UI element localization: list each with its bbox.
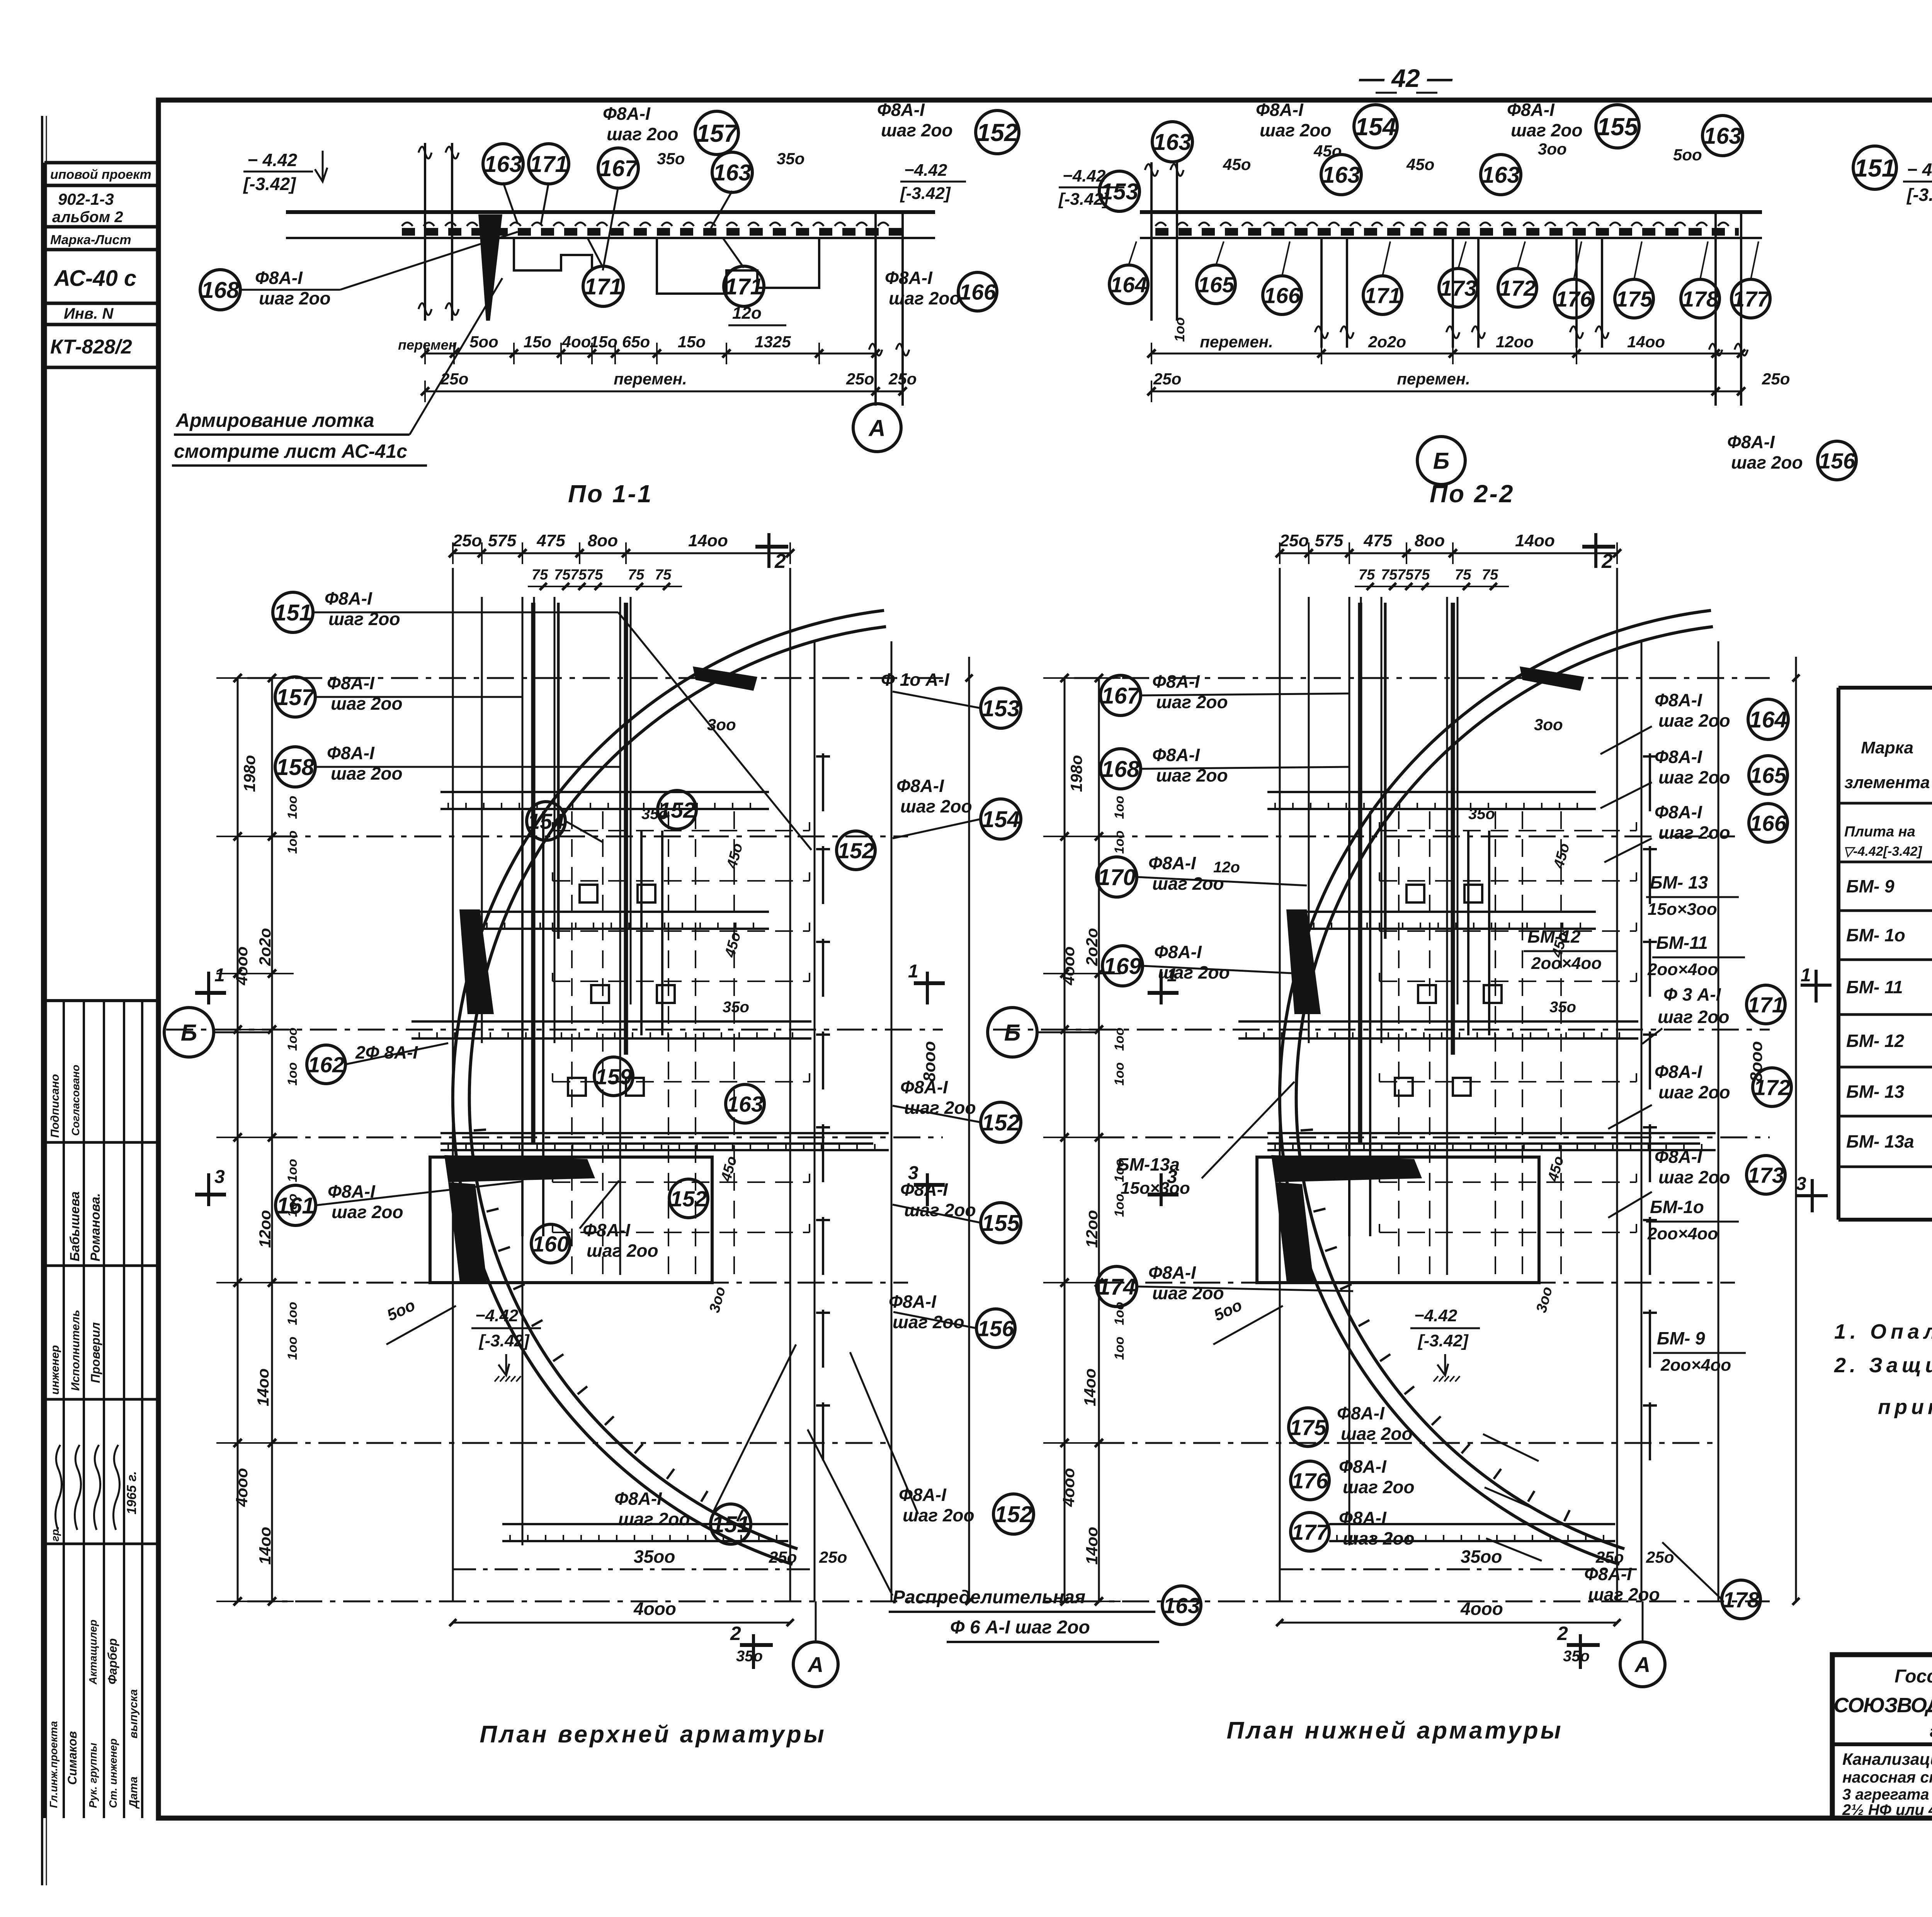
svg-text:171: 171 [584, 274, 622, 299]
svg-text:175: 175 [1289, 1416, 1327, 1440]
svg-text:65о: 65о [622, 333, 650, 351]
svg-text:шаг 2оо: шаг 2оо [1341, 1424, 1413, 1444]
svg-text:Б: Б [1433, 448, 1449, 474]
svg-text:Ф 3 А-I: Ф 3 А-I [1663, 984, 1721, 1004]
svg-text:154: 154 [527, 809, 564, 834]
svg-text:2. Защитный слой бе: 2. Защитный слой бетона для арматуры в п… [1834, 1354, 1932, 1377]
svg-text:172: 172 [1499, 276, 1536, 301]
svg-text:3оо: 3оо [1538, 140, 1567, 158]
svg-text:15о×3оо: 15о×3оо [1648, 900, 1717, 919]
svg-text:перемен.: перемен. [614, 370, 687, 388]
svg-text:шаг 2оо: шаг 2оо [1260, 120, 1332, 140]
svg-text:1оо: 1оо [285, 1062, 300, 1086]
svg-text:177: 177 [1732, 287, 1770, 312]
svg-text:Ф8А-I: Ф8А-I [900, 1179, 948, 1200]
svg-text:Ф8А-I: Ф8А-I [1655, 1147, 1702, 1167]
svg-text:Ф8А-I: Ф8А-I [1148, 1263, 1196, 1283]
svg-text:178: 178 [1682, 287, 1718, 312]
svg-text:СОЮЗВОДОКАНАЛПРОЕКТ: СОЮЗВОДОКАНАЛПРОЕКТ [1833, 1694, 1932, 1717]
svg-text:Гл.инж.проекта: Гл.инж.проекта [48, 1721, 60, 1808]
svg-text:75: 75 [655, 567, 672, 583]
svg-text:5оо: 5оо [469, 333, 498, 351]
svg-text:План верхней арматуры: План верхней арматуры [480, 1721, 826, 1748]
svg-text:1965 г.: 1965 г. [124, 1471, 139, 1514]
svg-text:1оо: 1оо [285, 796, 300, 819]
svg-text:1оо: 1оо [285, 1159, 300, 1182]
svg-text:75: 75 [532, 567, 548, 583]
svg-text:1: 1 [908, 961, 918, 982]
svg-text:45о: 45о [1223, 155, 1251, 173]
svg-text:Ф 1о А-I: Ф 1о А-I [881, 670, 950, 690]
svg-text:шаг 2оо: шаг 2оо [1658, 1082, 1730, 1102]
svg-text:35о: 35о [736, 1648, 763, 1665]
svg-text:альбом 2: альбом 2 [52, 209, 123, 226]
svg-text:шаг 2оо: шаг 2оо [587, 1241, 658, 1261]
svg-text:Ф8А-I: Ф8А-I [327, 673, 375, 693]
svg-text:178: 178 [1723, 1588, 1759, 1613]
svg-text:75: 75 [1455, 567, 1471, 583]
svg-text:шаг 2оо: шаг 2оо [1658, 823, 1730, 843]
svg-text:475: 475 [1363, 531, 1392, 550]
svg-text:БМ-1о: БМ-1о [1650, 1197, 1704, 1217]
svg-text:161: 161 [277, 1193, 315, 1219]
svg-text:575: 575 [1315, 531, 1344, 550]
svg-text:3оо: 3оо [707, 715, 736, 734]
svg-text:Госстрой СССР: Госстрой СССР [1895, 1666, 1932, 1687]
svg-text:8оо: 8оо [1415, 531, 1445, 550]
svg-text:166: 166 [959, 280, 996, 305]
svg-text:Ф8А-I: Ф8А-I [255, 268, 303, 288]
svg-text:3оо: 3оо [1534, 715, 1563, 734]
svg-text:шаг 2оо: шаг 2оо [1511, 120, 1583, 140]
svg-text:171: 171 [530, 151, 568, 177]
svg-text:14оо: 14оо [1081, 1368, 1099, 1406]
svg-text:163: 163 [1482, 162, 1520, 188]
svg-text:Исполнитель: Исполнитель [69, 1310, 82, 1391]
svg-text:1: 1 [1801, 965, 1811, 986]
svg-text:25о: 25о [819, 1548, 847, 1566]
svg-text:Плита на: Плита на [1844, 824, 1915, 840]
svg-text:шаг 2оо: шаг 2оо [607, 124, 679, 144]
svg-text:2о2о: 2о2о [1083, 928, 1101, 966]
svg-text:Ф 6 А-I шаг 2оо: Ф 6 А-I шаг 2оо [950, 1617, 1090, 1638]
svg-text:25о: 25о [452, 531, 482, 550]
svg-text:35о: 35о [657, 150, 685, 168]
svg-text:176: 176 [1555, 287, 1592, 312]
svg-text:Ф8А-I: Ф8А-I [1256, 100, 1304, 120]
svg-text:25о: 25о [1595, 1548, 1624, 1566]
svg-text:152: 152 [977, 119, 1018, 146]
svg-text:− 4.42: − 4.42 [247, 150, 298, 170]
svg-text:163: 163 [1163, 1594, 1200, 1618]
svg-text:169: 169 [1104, 953, 1142, 979]
svg-text:45о: 45о [1313, 142, 1342, 160]
svg-text:шаг 2оо: шаг 2оо [1152, 1283, 1224, 1303]
svg-text:176: 176 [1291, 1469, 1328, 1494]
svg-text:171: 171 [1364, 284, 1401, 308]
svg-text:35о: 35о [1563, 1648, 1590, 1665]
svg-text:Проверил: Проверил [88, 1322, 102, 1383]
svg-text:2: 2 [1601, 550, 1613, 573]
svg-text:159: 159 [595, 1065, 632, 1089]
svg-text:14оо: 14оо [1627, 333, 1665, 351]
svg-text:15о×3оо: 15о×3оо [1121, 1179, 1190, 1198]
svg-text:165: 165 [1197, 273, 1235, 297]
svg-text:152: 152 [670, 1187, 707, 1212]
svg-text:157: 157 [276, 685, 316, 710]
svg-text:1оо: 1оо [1172, 317, 1187, 342]
svg-text:155: 155 [1597, 113, 1639, 141]
svg-text:шаг 2оо: шаг 2оо [618, 1509, 690, 1529]
svg-text:смотрите лист АС-41с: смотрите лист АС-41с [174, 440, 407, 462]
svg-text:▽-4.42[-3.42]: ▽-4.42[-3.42] [1843, 844, 1922, 859]
svg-text:Марка: Марка [1861, 738, 1913, 757]
svg-text:163: 163 [1153, 129, 1192, 155]
svg-text:3: 3 [214, 1167, 225, 1187]
svg-text:198о: 198о [1067, 755, 1085, 792]
svg-text:Актащилер: Актащилер [87, 1620, 99, 1685]
svg-text:шаг 2оо: шаг 2оо [1343, 1528, 1415, 1548]
svg-text:157: 157 [696, 119, 739, 147]
svg-text:12оо: 12оо [1496, 333, 1534, 351]
svg-text:160: 160 [532, 1232, 569, 1257]
svg-text:злемента: злемента [1845, 773, 1930, 792]
svg-text:12оо: 12оо [1083, 1210, 1101, 1248]
svg-text:14оо: 14оо [688, 531, 728, 550]
svg-text:Ф8А-I: Ф8А-I [614, 1489, 662, 1509]
svg-text:153: 153 [982, 696, 1020, 721]
svg-text:2о2о: 2о2о [1368, 333, 1406, 351]
svg-text:Ф8А-I: Ф8А-I [1152, 671, 1200, 692]
svg-text:Распределительная: Распределительная [893, 1587, 1085, 1608]
svg-text:Ф8А-I: Ф8А-I [1655, 747, 1702, 767]
svg-text:1оо: 1оо [285, 1302, 300, 1325]
svg-text:Ф8А-I: Ф8А-I [1655, 690, 1702, 710]
svg-text:177: 177 [1291, 1520, 1329, 1545]
svg-text:насосная станция на: насосная станция на [1842, 1768, 1932, 1786]
svg-text:БМ- 9: БМ- 9 [1846, 876, 1895, 896]
svg-text:Ф8А-I: Ф8А-I [889, 1292, 937, 1312]
svg-text:БМ- 13: БМ- 13 [1650, 872, 1708, 892]
svg-text:[-3.42]: [-3.42] [1906, 185, 1932, 205]
svg-text:шаг 2оо: шаг 2оо [889, 288, 961, 308]
svg-text:КТ-828/2: КТ-828/2 [50, 336, 132, 358]
svg-text:Ф8А-I: Ф8А-I [1655, 1062, 1702, 1082]
svg-text:154: 154 [1355, 113, 1396, 141]
svg-text:Рук. группы: Рук. группы [87, 1743, 99, 1808]
svg-text:156: 156 [977, 1317, 1014, 1341]
svg-text:14оо: 14оо [1083, 1527, 1101, 1565]
svg-text:шаг 2оо: шаг 2оо [881, 120, 953, 140]
svg-text:25о: 25о [846, 370, 874, 388]
svg-text:Бабышева: Бабышева [68, 1191, 82, 1261]
svg-text:2оо×4оо: 2оо×4оо [1660, 1356, 1731, 1375]
svg-text:Ф8А-I: Ф8А-I [900, 1077, 948, 1097]
svg-text:8ооо: 8ооо [920, 1041, 939, 1082]
svg-text:163: 163 [713, 160, 752, 185]
svg-text:Ф8А-I: Ф8А-I [1339, 1456, 1387, 1477]
svg-text:шаг 2оо: шаг 2оо [893, 1312, 964, 1332]
svg-text:шаг 2оо: шаг 2оо [1588, 1584, 1660, 1604]
svg-text:172: 172 [1753, 1076, 1790, 1100]
svg-text:4ооо: 4ооо [633, 1599, 676, 1619]
svg-text:14оо: 14оо [254, 1368, 272, 1406]
svg-text:163: 163 [1322, 162, 1361, 188]
svg-text:−4.42: −4.42 [1063, 167, 1106, 185]
svg-text:164: 164 [1749, 707, 1787, 732]
svg-text:Инв. N: Инв. N [64, 305, 114, 322]
svg-text:154: 154 [982, 807, 1020, 832]
svg-text:2: 2 [774, 550, 786, 573]
svg-text:4ооо: 4ооо [233, 947, 251, 986]
svg-text:25о: 25о [1153, 370, 1181, 388]
svg-text:шаг 2оо: шаг 2оо [1343, 1477, 1415, 1497]
svg-text:БМ- 11: БМ- 11 [1846, 977, 1903, 997]
svg-text:4ооо: 4ооо [233, 1468, 251, 1507]
svg-text:шаг 2оо: шаг 2оо [1658, 1167, 1730, 1187]
svg-text:151: 151 [274, 600, 312, 625]
svg-text:35о: 35о [723, 999, 749, 1016]
svg-text:152: 152 [995, 1502, 1033, 1527]
svg-text:гр.: гр. [49, 1526, 61, 1541]
svg-text:2½ НФ или 4НФ.: 2½ НФ или 4НФ. [1842, 1801, 1932, 1818]
svg-text:14оо: 14оо [256, 1527, 274, 1565]
svg-text:А: А [868, 415, 885, 441]
svg-text:2оо×4оо: 2оо×4оо [1647, 960, 1718, 979]
svg-text:14оо: 14оо [1515, 531, 1555, 550]
svg-text:173: 173 [1440, 276, 1476, 301]
svg-text:156: 156 [1818, 449, 1855, 474]
svg-text:шаг 2оо: шаг 2оо [1658, 710, 1730, 731]
svg-text:1оо: 1оо [1112, 1062, 1127, 1086]
svg-text:75: 75 [1413, 567, 1430, 583]
svg-text:Симаков: Симаков [65, 1731, 79, 1785]
svg-text:План нижней арматуры: План нижней арматуры [1226, 1717, 1563, 1744]
svg-text:25о: 25о [1279, 531, 1309, 550]
svg-text:75: 75 [1381, 567, 1398, 583]
svg-text:Ст. инженер: Ст. инженер [107, 1739, 119, 1808]
svg-text:перемен.: перемен. [1200, 333, 1273, 351]
svg-text:1оо: 1оо [1112, 1337, 1127, 1360]
svg-text:35оо: 35оо [634, 1547, 675, 1567]
svg-text:35о: 35о [1468, 806, 1495, 823]
svg-text:шаг 2оо: шаг 2оо [903, 1505, 975, 1525]
svg-text:Ф8А-I: Ф8А-I [1148, 853, 1196, 873]
svg-text:168: 168 [201, 277, 240, 303]
svg-text:— 42 —: — 42 — [1359, 64, 1453, 92]
svg-text:2: 2 [730, 1623, 741, 1644]
svg-text:шаг 2оо: шаг 2оо [1658, 767, 1730, 787]
svg-text:1оо: 1оо [285, 1337, 300, 1360]
svg-text:шаг 2оо: шаг 2оо [1658, 1007, 1730, 1027]
svg-text:475: 475 [536, 531, 565, 550]
svg-text:Ф8А-I: Ф8А-I [1584, 1564, 1632, 1584]
svg-text:БМ-12: БМ-12 [1527, 926, 1581, 947]
svg-text:12о: 12о [732, 304, 762, 323]
svg-text:шаг 2оо: шаг 2оо [1152, 874, 1224, 894]
svg-text:[-3.42]: [-3.42] [243, 174, 296, 194]
svg-text:158: 158 [276, 755, 315, 780]
svg-text:2: 2 [1557, 1623, 1568, 1644]
svg-text:−4.42: −4.42 [904, 161, 947, 180]
svg-text:БМ-11: БМ-11 [1656, 933, 1708, 953]
svg-text:171: 171 [1747, 993, 1784, 1018]
svg-text:166: 166 [1264, 284, 1300, 308]
svg-text:167: 167 [599, 156, 639, 181]
svg-text:164: 164 [1110, 273, 1147, 297]
svg-text:Романова.: Романова. [88, 1193, 103, 1261]
svg-text:15о: 15о [678, 333, 706, 351]
svg-text:шаг 2оо: шаг 2оо [900, 796, 972, 816]
svg-text:2Ф 8А-I: 2Ф 8А-I [355, 1042, 418, 1062]
svg-text:Ф8А-I: Ф8А-I [1337, 1403, 1385, 1423]
svg-text:152: 152 [982, 1110, 1020, 1135]
svg-text:Б: Б [1004, 1020, 1020, 1046]
svg-text:4оо: 4оо [562, 333, 591, 351]
svg-text:Ф8А-I: Ф8А-I [1154, 942, 1202, 962]
svg-text:шаг 2оо: шаг 2оо [259, 288, 331, 308]
svg-text:БМ- 13: БМ- 13 [1846, 1082, 1905, 1102]
svg-text:1оо: 1оо [1112, 1028, 1127, 1051]
svg-text:БМ-13а: БМ-13а [1117, 1154, 1180, 1174]
svg-text:Ф8А-I: Ф8А-I [885, 268, 933, 288]
svg-text:АС-40 с: АС-40 с [53, 266, 136, 291]
svg-text:−4.42: −4.42 [475, 1306, 519, 1325]
svg-text:75: 75 [1397, 567, 1414, 583]
svg-text:БМ- 1о: БМ- 1о [1846, 925, 1905, 945]
svg-text:163: 163 [484, 151, 522, 177]
svg-text:[-3.42]: [-3.42] [478, 1331, 530, 1350]
svg-text:12оо: 12оо [256, 1210, 274, 1248]
svg-text:Ф8А-I: Ф8А-I [1152, 745, 1200, 765]
svg-text:171: 171 [725, 274, 763, 299]
svg-text:4ооо: 4ооо [1060, 947, 1078, 986]
svg-text:35о: 35о [777, 150, 804, 168]
svg-text:БМ- 12: БМ- 12 [1846, 1031, 1905, 1051]
svg-text:А: А [1634, 1652, 1650, 1677]
svg-text:152: 152 [837, 839, 874, 863]
svg-text:168: 168 [1102, 756, 1140, 782]
svg-text:перемен.: перемен. [398, 337, 461, 353]
svg-text:4ооо: 4ооо [1460, 1599, 1503, 1619]
svg-text:БМ- 9: БМ- 9 [1657, 1328, 1705, 1348]
svg-text:Ф8А-I: Ф8А-I [1339, 1508, 1387, 1528]
svg-text:1оо: 1оо [285, 831, 300, 854]
svg-text:Ф8А-I: Ф8А-I [899, 1485, 947, 1505]
svg-text:Б: Б [181, 1020, 197, 1046]
svg-text:163: 163 [726, 1092, 763, 1117]
svg-text:г. Москва: г. Москва [1930, 1722, 1932, 1741]
svg-text:−4.42: −4.42 [1414, 1306, 1458, 1325]
svg-text:25о: 25о [1762, 370, 1790, 388]
svg-text:2оо×4оо: 2оо×4оо [1531, 954, 1602, 973]
svg-text:175: 175 [1616, 287, 1653, 312]
svg-text:Ф8А-I: Ф8А-I [877, 100, 925, 120]
svg-text:Согласовано: Согласовано [70, 1065, 82, 1136]
svg-text:[-3.42]: [-3.42] [1058, 190, 1109, 209]
svg-text:Ф8А-I: Ф8А-I [583, 1220, 631, 1240]
svg-text:перемен.: перемен. [1397, 370, 1470, 388]
svg-text:25о: 25о [769, 1548, 797, 1566]
svg-text:75: 75 [1482, 567, 1498, 583]
svg-text:Подписано: Подписано [49, 1074, 61, 1138]
svg-text:15о: 15о [524, 333, 551, 351]
svg-text:8оо: 8оо [588, 531, 618, 550]
svg-text:163: 163 [1704, 123, 1742, 149]
svg-text:75: 75 [1359, 567, 1375, 583]
svg-text:35о: 35о [1549, 999, 1576, 1016]
svg-text:1: 1 [214, 965, 225, 986]
svg-text:166: 166 [1750, 811, 1786, 836]
svg-text:Ф8А-I: Ф8А-I [1507, 100, 1555, 120]
svg-text:шаг 2оо: шаг 2оо [332, 1202, 403, 1222]
svg-text:902-1-3: 902-1-3 [58, 190, 114, 208]
svg-text:3 агрегата с насосами: 3 агрегата с насосами [1842, 1786, 1932, 1803]
svg-text:− 4.42: − 4.42 [1907, 160, 1932, 180]
svg-text:БМ- 13а: БМ- 13а [1846, 1132, 1914, 1152]
svg-text:1оо: 1оо [285, 1028, 300, 1051]
svg-text:выпуска: выпуска [127, 1689, 140, 1739]
svg-text:Ф8А-I: Ф8А-I [1655, 802, 1702, 822]
svg-text:А: А [807, 1652, 823, 1677]
svg-text:Фарбер: Фарбер [105, 1638, 119, 1684]
svg-text:Ф8А-I: Ф8А-I [1727, 432, 1775, 452]
svg-text:165: 165 [1750, 763, 1787, 788]
svg-text:2о2о: 2о2о [256, 928, 274, 966]
svg-text:170: 170 [1098, 865, 1136, 890]
svg-text:Ф8А-I: Ф8А-I [327, 743, 375, 763]
svg-text:75: 75 [628, 567, 645, 583]
svg-text:151: 151 [712, 1512, 750, 1537]
svg-text:1. Опалубочные чертежи: 1. Опалубочные чертежи смотрите лист АС-… [1834, 1320, 1932, 1343]
svg-text:25о: 25о [440, 370, 468, 388]
svg-text:2оо×4оо: 2оо×4оо [1647, 1224, 1718, 1243]
svg-text:Армирование лотка: Армирование лотка [175, 410, 374, 431]
svg-text:75: 75 [587, 567, 603, 583]
svg-text:Канализационная: Канализационная [1842, 1750, 1932, 1769]
svg-text:Марка-Лист: Марка-Лист [50, 233, 131, 247]
svg-text:174: 174 [1098, 1274, 1136, 1300]
svg-text:45о: 45о [1406, 155, 1434, 173]
svg-text:шаг 2оо: шаг 2оо [1731, 452, 1803, 472]
svg-text:152: 152 [658, 798, 695, 823]
svg-text:575: 575 [488, 531, 517, 550]
svg-text:шаг 2оо: шаг 2оо [1158, 962, 1230, 982]
svg-text:162: 162 [308, 1053, 344, 1077]
svg-text:167: 167 [1102, 683, 1141, 709]
svg-text:151: 151 [1854, 154, 1896, 182]
svg-text:инженер: инженер [49, 1345, 61, 1395]
svg-text:4ооо: 4ооо [1060, 1468, 1078, 1507]
svg-text:75: 75 [570, 567, 587, 583]
svg-text:иповой проект: иповой проект [50, 167, 151, 182]
svg-text:35оо: 35оо [1461, 1547, 1502, 1567]
svg-text:5оо: 5оо [1673, 146, 1702, 164]
svg-text:[-3.42]: [-3.42] [900, 184, 951, 203]
svg-text:12о: 12о [1213, 859, 1240, 876]
svg-text:принят 2о мм.: принят 2о мм. [1878, 1395, 1932, 1419]
svg-text:Дата: Дата [127, 1776, 140, 1809]
svg-text:1325: 1325 [755, 333, 791, 351]
svg-text:25о: 25о [888, 370, 917, 388]
svg-text:173: 173 [1747, 1163, 1784, 1188]
svg-text:1оо: 1оо [1112, 831, 1127, 854]
svg-text:155: 155 [982, 1210, 1020, 1236]
svg-text:75: 75 [554, 567, 571, 583]
svg-text:15о: 15о [590, 333, 617, 351]
svg-text:По 1-1: По 1-1 [568, 480, 653, 508]
svg-text:Ф8А-I: Ф8А-I [325, 588, 372, 608]
